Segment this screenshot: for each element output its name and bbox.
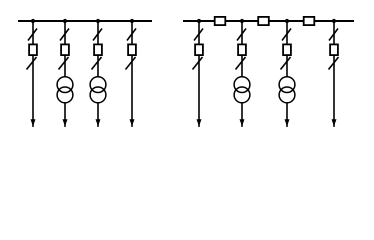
disconnector slash L3-lower [92,57,102,70]
disconnector slash L1-upper [28,29,37,41]
disconnector slash R4-lower [329,57,339,70]
circuit breaker box R4 [330,44,338,55]
disconnector slash L3-upper [93,29,102,41]
disconnector slash L4-lower [126,57,136,70]
wire: feeder L3 vertical [97,21,99,127]
node: tap junction R2 [240,19,244,23]
disconnector slash R4-upper [329,29,338,41]
wire: feeder L2 vertical [64,21,66,127]
load arrow R1 [197,119,202,126]
wire: feeder R2 vertical [241,21,243,127]
wire: feeder L4 vertical [131,21,133,127]
node: tap junction R1 [197,19,201,23]
wire: feeder L1 vertical [32,21,34,127]
wire: feeder R1 vertical [198,21,200,127]
circuit breaker box R3 [283,44,291,55]
load arrow L1 [31,119,36,126]
node: tap junction R4 [332,19,336,23]
load arrow R4 [332,119,337,126]
circuit breaker box R1 [195,44,203,55]
node: tap junction R3 [285,19,289,23]
circuit breaker box R2 [238,44,246,55]
busbar (left diagram) [18,20,152,22]
node: tap junction L2 [63,19,67,23]
bus section switch S2 [258,17,269,25]
disconnector slash R1-lower [193,57,203,70]
disconnector slash L4-upper [127,29,136,41]
load arrow L3 [96,119,101,126]
disconnector slash R3-upper [282,29,291,41]
disconnector slash L1-lower [27,57,37,70]
busbar (right diagram, sectionalized) [183,20,354,22]
wire: feeder R3 vertical [286,21,288,127]
circuit breaker box L4 [128,44,136,55]
node: tap junction L1 [31,19,35,23]
load arrow R3 [285,119,290,126]
disconnector slash R2-lower [236,57,246,70]
node: tap junction L4 [130,19,134,23]
load arrow L2 [63,119,68,126]
bus section switch S3 [304,17,315,25]
load arrow L4 [130,119,135,126]
transformer L2 (two windings) [57,77,73,103]
disconnector slash R1-upper [194,29,203,41]
bus section switch S1 [215,17,226,25]
disconnector slash L2-lower [59,57,69,70]
load arrow R2 [240,119,245,126]
circuit breaker box L3 [94,44,102,55]
node: tap junction L3 [96,19,100,23]
disconnector slash R2-upper [237,29,246,41]
transformer L3 (two windings) [90,77,106,103]
transformer R2 (two windings) [234,77,250,103]
circuit breaker box L2 [61,44,69,55]
disconnector slash L2-upper [60,29,69,41]
disconnector slash R3-lower [281,57,291,70]
circuit breaker box L1 [29,44,37,55]
transformer R3 (two windings) [279,77,295,103]
wire: feeder R4 vertical [333,21,335,127]
